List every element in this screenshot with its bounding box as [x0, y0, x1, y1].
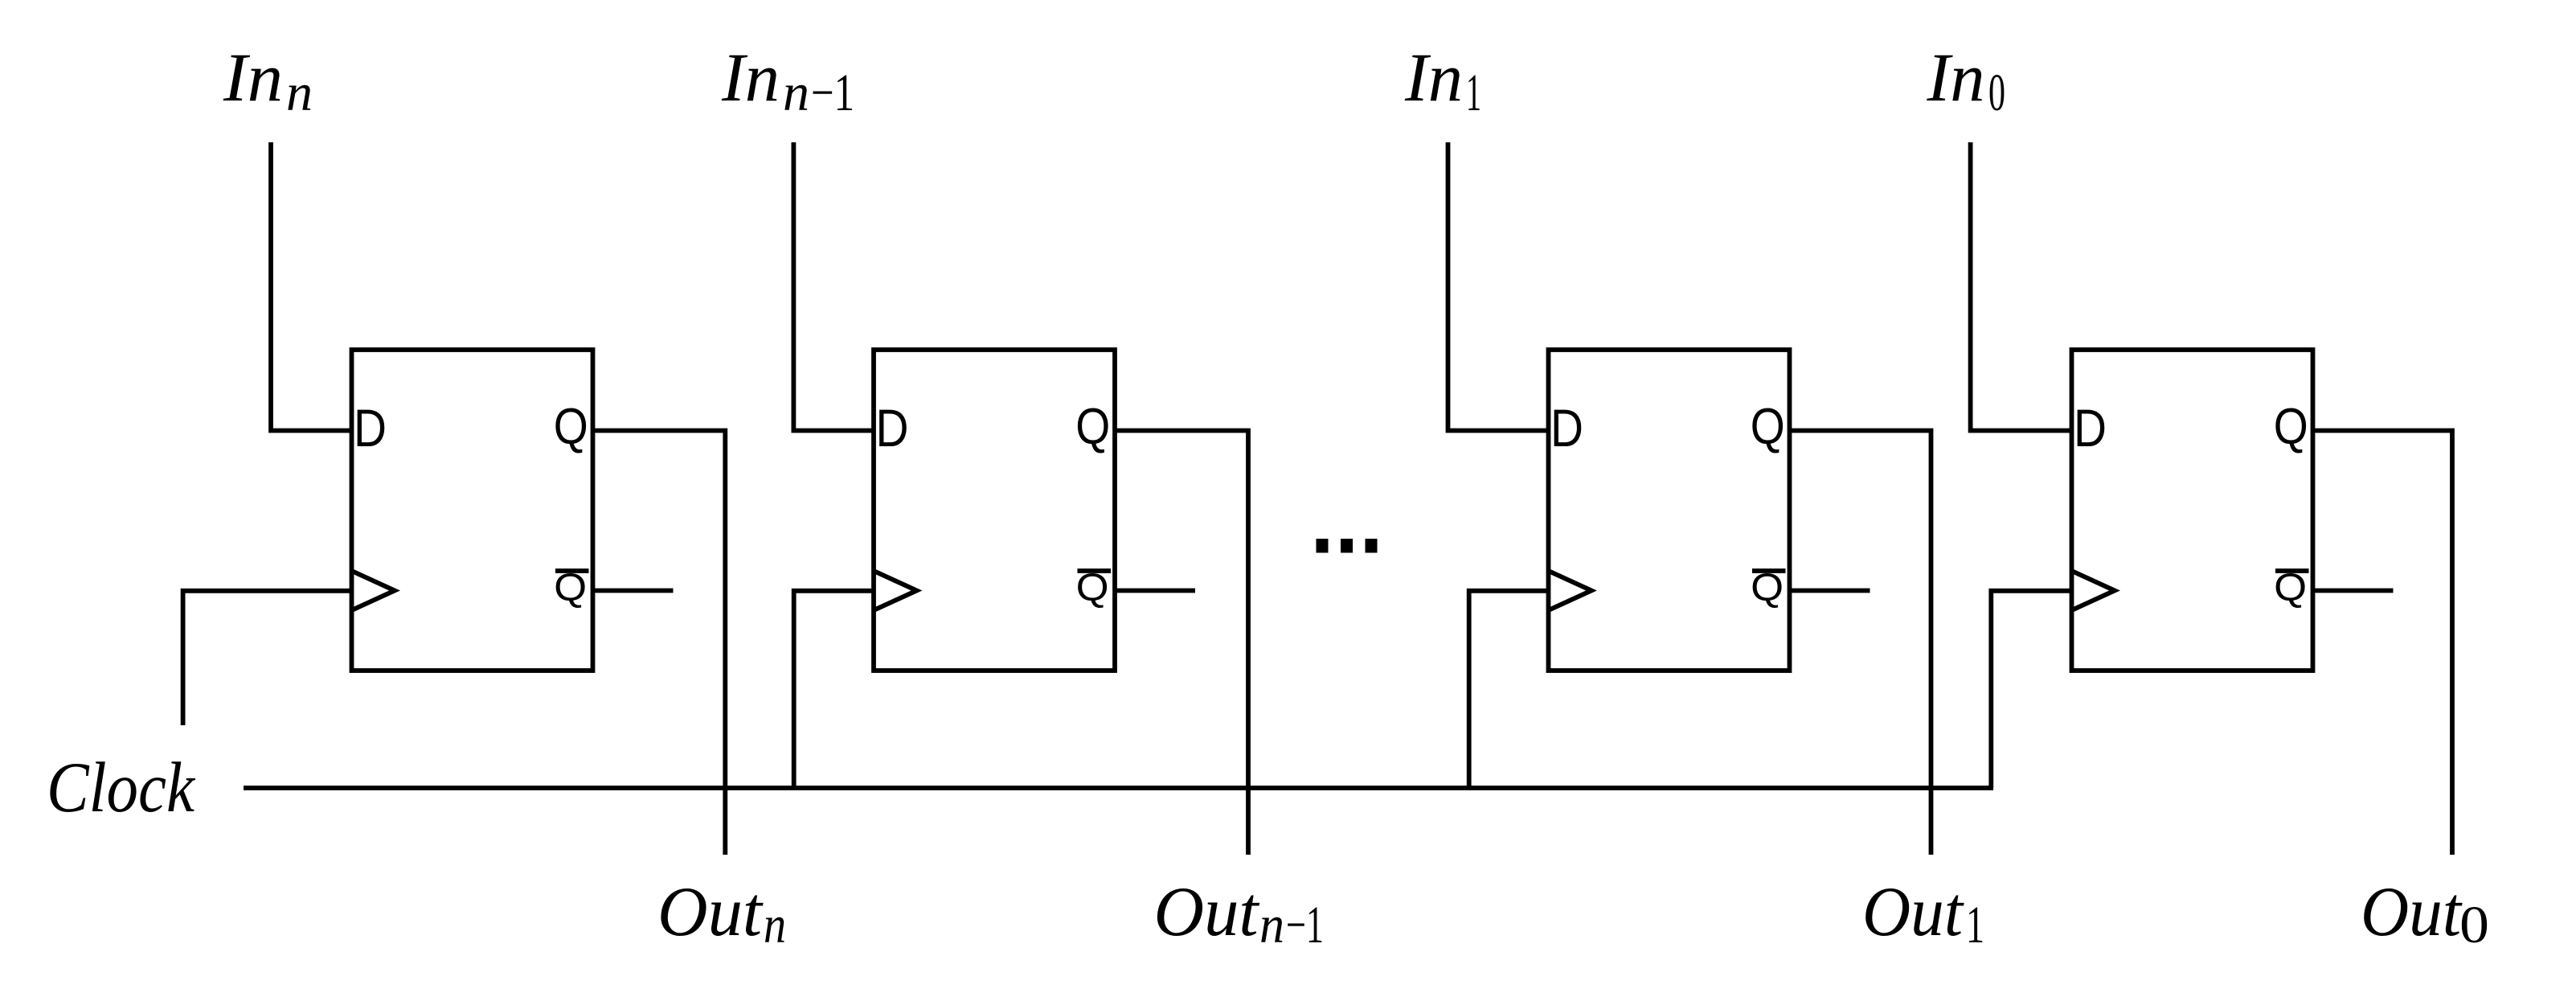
svg-text:Out: Out: [657, 873, 764, 951]
svg-text:Q: Q: [554, 399, 588, 455]
svg-text:Q: Q: [2274, 399, 2308, 455]
svg-text:Out: Out: [1862, 873, 1964, 951]
svg-text:D: D: [876, 398, 909, 457]
svg-text:Clock: Clock: [47, 749, 195, 827]
svg-text:−1: −1: [1286, 896, 1324, 954]
svg-text:Q: Q: [554, 567, 587, 609]
svg-text:n: n: [764, 896, 786, 954]
svg-text:Q: Q: [2274, 567, 2307, 609]
svg-text:1: 1: [1466, 64, 1481, 122]
svg-text:−1: −1: [811, 64, 854, 122]
svg-text:D: D: [1550, 398, 1583, 457]
svg-text:Q: Q: [1076, 567, 1109, 609]
svg-text:D: D: [2074, 398, 2107, 457]
svg-text:Out: Out: [1154, 873, 1261, 951]
svg-text:In: In: [721, 39, 780, 116]
svg-text:Q: Q: [1751, 399, 1785, 455]
svg-text:Out: Out: [2361, 873, 2463, 951]
svg-text:n: n: [286, 64, 313, 122]
svg-text:1: 1: [1966, 896, 1984, 954]
svg-text:Q: Q: [1075, 399, 1110, 455]
svg-text:In: In: [223, 39, 283, 116]
svg-text:0: 0: [2459, 896, 2489, 954]
svg-text:D: D: [354, 398, 387, 457]
svg-text:In: In: [1404, 39, 1463, 116]
svg-text:0: 0: [1988, 64, 2005, 122]
svg-text:Q: Q: [1751, 567, 1784, 609]
svg-text:In: In: [1926, 39, 1984, 116]
svg-text:n: n: [1259, 896, 1284, 954]
svg-text:n: n: [783, 64, 809, 122]
